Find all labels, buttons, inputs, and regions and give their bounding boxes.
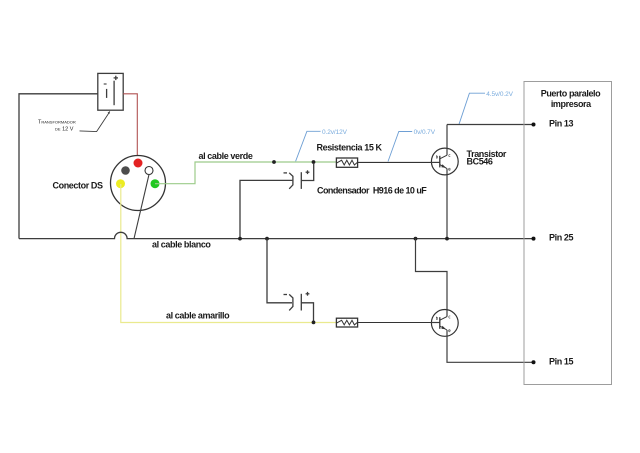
svg-text:al cable blanco: al cable blanco [152,240,211,250]
transformer T1 [98,73,123,110]
blue note 0v/0.7V [388,129,436,161]
svg-text:Puerto paralelo: Puerto paralelo [541,88,601,98]
capacitor C2 [267,239,314,323]
svg-text:Pin 13: Pin 13 [549,119,574,129]
svg-text:Resistencia 15 K: Resistencia 15 K [317,143,383,153]
svg-text:de 12 V: de 12 V [55,127,74,133]
wire yellow [121,184,337,323]
node pin25 [532,237,536,241]
wire red [123,94,137,160]
wire collector to pin 13 [447,124,534,126]
pin gray [121,166,130,175]
wire blanco [19,232,534,238]
connector DS J1 [111,156,166,211]
wire center pin diagonal [134,175,149,239]
svg-text:0.2v/12V: 0.2v/12V [322,129,348,136]
resistor R2 [336,318,440,327]
junction node F [445,237,449,241]
svg-text:Pin 25: Pin 25 [549,233,574,243]
svg-text:BC546: BC546 [467,157,493,167]
junction node C [238,237,242,241]
transistor Q2 [416,239,534,363]
junction node B [312,160,316,164]
pin green [151,179,160,188]
svg-text:Transformador: Transformador [38,120,76,126]
label Transformador de 12 V [38,111,110,133]
svg-text:0v/0.7V: 0v/0.7V [414,129,436,136]
junction node E [414,237,418,241]
pin center [145,167,153,175]
svg-text:impresora: impresora [551,99,592,109]
junction node G [312,321,316,325]
svg-text:Conector DS: Conector DS [53,181,104,191]
wire green [155,162,337,184]
svg-text:Condensador H916 de 10 uF: Condensador H916 de 10 uF [317,186,427,196]
pin yellow [116,179,125,188]
resistor R1 [336,158,440,167]
svg-text:al cable verde: al cable verde [199,151,253,161]
blue note 4.5v/0.2V [459,91,514,124]
node pin15 [532,360,536,364]
blue note 0.2v/12V [296,129,348,161]
port rectangle parallel port [524,82,612,385]
node pin13 [532,123,536,127]
svg-text:4.5v/0.2V: 4.5v/0.2V [486,91,513,98]
transistor Q1 [431,125,458,239]
wire left rail [19,94,98,239]
capacitor C1 [240,164,314,239]
svg-text:Pin 15: Pin 15 [549,357,574,367]
svg-text:al cable amarillo: al cable amarillo [166,311,230,321]
junction node A [272,160,276,164]
pin red [134,159,143,168]
junction node D [265,237,269,241]
